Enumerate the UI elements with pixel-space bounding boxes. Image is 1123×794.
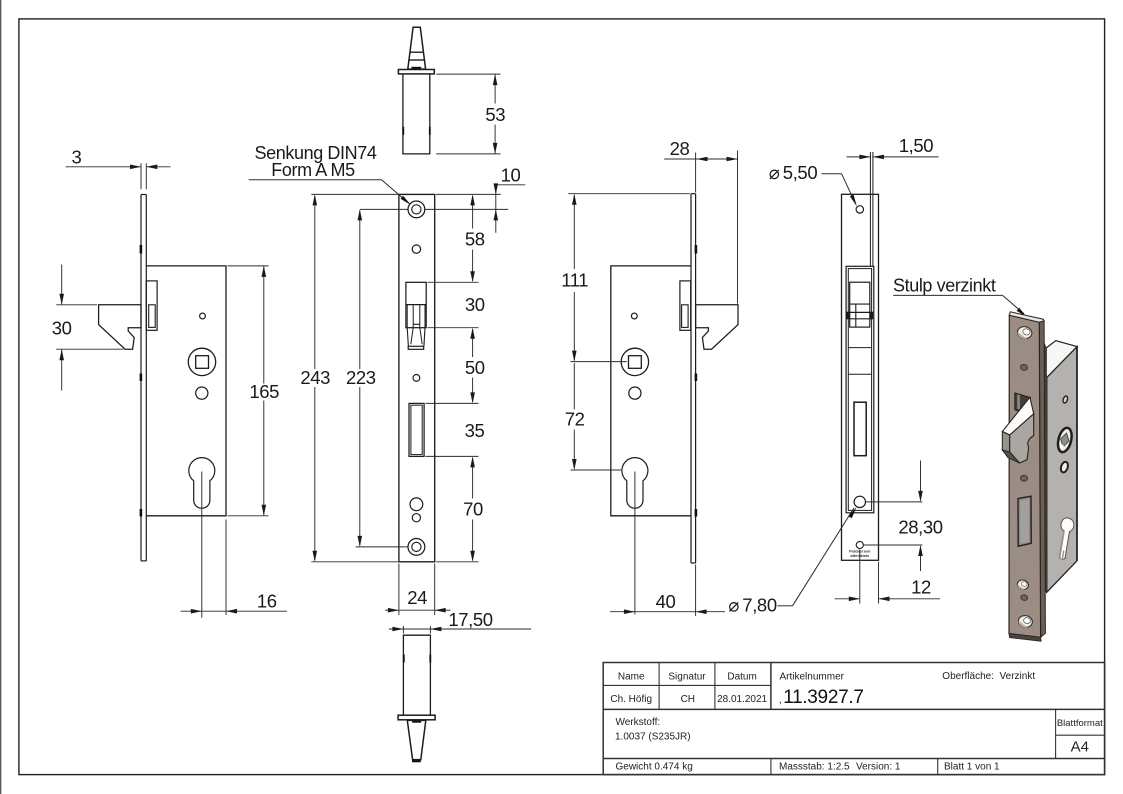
view A euro cylinder keyhole [189, 458, 215, 509]
hole center extension line [360, 208, 509, 210]
view B deadbolt window [409, 403, 424, 456]
svg-text:165: 165 [249, 381, 279, 402]
svg-text:Ch. Höfig: Ch. Höfig [610, 694, 652, 705]
dim 40 (backset) [634, 472, 636, 615]
svg-text:58: 58 [465, 229, 485, 250]
top locking pin cone [408, 27, 426, 69]
svg-text:Stulp verzinkt: Stulp verzinkt [893, 276, 996, 296]
bottom hole center extension [356, 546, 425, 548]
view D case partitions [848, 347, 871, 349]
view B small hole middle [413, 375, 420, 382]
svg-text:⌀ 7,80: ⌀ 7,80 [728, 595, 777, 616]
svg-text:28: 28 [670, 138, 690, 159]
svg-text:1.0037 (S235JR): 1.0037 (S235JR) [615, 732, 691, 743]
view A small hole above follower [200, 313, 206, 319]
view C small hole above follower [631, 313, 637, 319]
svg-text:50: 50 [465, 357, 485, 378]
view C lock case [611, 266, 691, 516]
svg-text:Signatur: Signatur [668, 672, 706, 683]
svg-text:CH: CH [681, 694, 695, 705]
3D lock case gray side face [1047, 347, 1077, 593]
dim 12 [859, 550, 861, 604]
svg-text:28,30: 28,30 [898, 517, 942, 538]
svg-text:Blattformat: Blattformat [1057, 718, 1103, 729]
svg-text:35: 35 [465, 420, 485, 441]
svg-text:⌀ 5,50: ⌀ 5,50 [769, 162, 818, 183]
3D deadbolt window [1018, 496, 1031, 546]
svg-text:30: 30 [52, 317, 72, 338]
3D case right edge line [1076, 347, 1078, 561]
3D stulp small hole 3 [1020, 594, 1028, 601]
svg-text:Blatt 1 von 1: Blatt 1 von 1 [944, 762, 1000, 773]
dim 70 [472, 458, 474, 499]
svg-text:24: 24 [407, 587, 427, 608]
3D stulp front face (taupe) [1009, 315, 1041, 637]
ext: plate top to left [568, 193, 690, 195]
svg-text:3: 3 [72, 147, 82, 168]
title block frame [603, 663, 1104, 775]
3D hook bolt white top face [1002, 397, 1033, 435]
view A latch guide block [146, 281, 157, 330]
view C latch guide block [680, 281, 691, 330]
3D shadow strip between stulp and case [1044, 342, 1047, 593]
view A follower hole (square nut) [188, 348, 215, 375]
svg-text:1,50: 1,50 [899, 135, 934, 156]
ext lines right chain [436, 193, 501, 195]
3D stulp bottom dark edge [1009, 634, 1041, 642]
3D stulp top edge light [1009, 312, 1044, 322]
top pin flange [398, 70, 434, 74]
view A hole below follower [196, 387, 208, 399]
svg-text:Datum: Datum [727, 672, 756, 683]
ext plate edge up [695, 153, 697, 193]
3D case small hole lower [1060, 461, 1070, 473]
svg-text:Artikelnummer: Artikelnummer [780, 672, 845, 683]
dim 28,30 [866, 501, 922, 503]
view C euro cylinder keyhole [622, 458, 648, 509]
view C follower hole [621, 348, 648, 375]
3D stulp small hole 2 [1020, 475, 1028, 482]
svg-text:28.01.2021: 28.01.2021 [717, 694, 767, 705]
view A weld marks on faceplate [140, 245, 143, 254]
bottom pin flange [398, 715, 435, 720]
dim 17,50 (pin diameter) [402, 626, 404, 634]
view A lock case [146, 266, 226, 516]
3D stulp right edge dark face [1039, 321, 1045, 638]
view D screw hole top [856, 206, 863, 213]
ext hook tip [737, 151, 739, 304]
3D case small hole upper [1062, 395, 1068, 403]
svg-text:243: 243 [300, 367, 330, 388]
3D case top white face [1044, 341, 1077, 378]
dim 223 (hole spacing) [359, 210, 361, 369]
svg-text:Oberfläche: Verzinkt: Oberfläche: Verzinkt [942, 671, 1035, 682]
3D follower hole [1056, 426, 1074, 453]
view C weld marks [695, 245, 698, 254]
view D deadbolt window [854, 402, 866, 456]
svg-text:40: 40 [656, 591, 676, 612]
svg-text:70: 70 [463, 499, 483, 520]
ext: follower center [571, 361, 627, 363]
page left edge scan line [0, 0, 2, 794]
3D stulp screw hole top [1016, 325, 1033, 340]
ext: plate top [311, 193, 398, 195]
view A faceplate (side, 3mm) [140, 195, 142, 561]
3D hook bolt left tip face [1002, 432, 1009, 453]
view C hook bolt [696, 305, 738, 349]
view D latch window [850, 282, 870, 327]
svg-text:12: 12 [911, 577, 931, 598]
bottom locking pin cylinder [403, 635, 430, 715]
svg-text:30: 30 [465, 294, 485, 315]
ext: keyhole center [571, 469, 622, 471]
view B small hole [412, 245, 420, 253]
svg-text:11.3927.7: 11.3927.7 [783, 687, 863, 708]
view D lock case seen from back [846, 266, 874, 513]
svg-text:Name: Name [618, 672, 645, 683]
svg-text:111: 111 [561, 270, 588, 291]
view D stulp edge (1.5mm) [869, 152, 871, 266]
view C faceplate (side) [690, 194, 692, 563]
view D small countersunk hole [856, 541, 863, 548]
bottom pin cone [407, 720, 426, 759]
svg-text:,: , [779, 695, 782, 706]
svg-text:Form A M5: Form A M5 [271, 160, 355, 180]
dim 165 (case height) [228, 265, 269, 267]
view B latch window [406, 282, 426, 327]
view B hole pair lower [410, 498, 423, 511]
3D hook bolt main gray face [1010, 414, 1034, 463]
dim 16 (keyhole center to case edge) [201, 472, 203, 618]
3D cylinder keyhole white [1055, 517, 1075, 560]
svg-text:17,50: 17,50 [448, 609, 492, 630]
svg-text:Werkstoff:: Werkstoff: [616, 717, 661, 728]
view C hole below follower [629, 387, 641, 399]
view B hook bolt tip below window [407, 328, 408, 347]
3D stulp countersunk hole mid [1016, 579, 1029, 591]
dim 50 [472, 329, 474, 357]
svg-text:223: 223 [346, 367, 376, 388]
svg-text:Massstab: 1:2.5: Massstab: 1:2.5 [779, 762, 850, 773]
svg-text:16: 16 [257, 591, 277, 612]
dim 30 (hook height) [56, 304, 97, 306]
svg-text:53: 53 [485, 104, 505, 125]
view B faceplate front [399, 194, 435, 561]
view D faceplate outline [842, 194, 879, 560]
pin shoulder [412, 720, 421, 722]
svg-text:72: 72 [565, 409, 585, 430]
3D hook bolt bottom dark face [1002, 450, 1019, 463]
svg-text:Version: 1: Version: 1 [856, 762, 901, 773]
3D stulp screw hole bottom [1017, 614, 1033, 629]
3D stulp small hole 1 [1020, 364, 1028, 371]
dim 24 (plate width) [398, 564, 400, 616]
svg-text:Gewicht 0.474 kg: Gewicht 0.474 kg [616, 762, 693, 773]
dim 58 [472, 196, 474, 229]
top pin cylinder [403, 74, 430, 154]
view A hook bolt [99, 305, 141, 349]
svg-text:A4: A4 [1071, 739, 1089, 756]
view D cylinder fixing hole (7.8) [854, 496, 865, 507]
dim 53 (pin length) [436, 73, 500, 75]
3D latch window dark opening [1015, 393, 1030, 415]
ext: plate bottom [311, 561, 398, 563]
svg-text:10: 10 [501, 164, 521, 185]
pin shoulder [412, 67, 422, 69]
